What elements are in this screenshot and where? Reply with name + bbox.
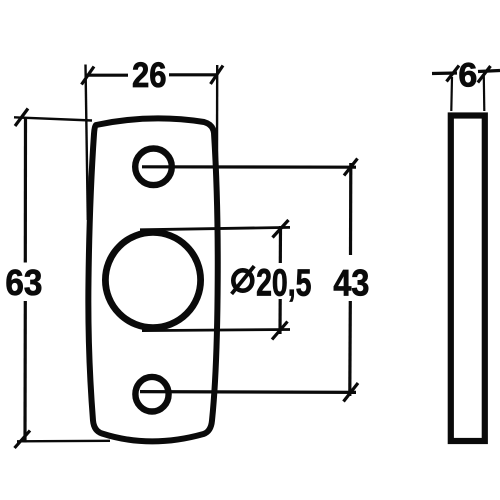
- dimension 63 bottom tick: [15, 431, 31, 449]
- dimension 6 right extension line: [483, 76, 486, 111]
- center hole Ø20,5: [105, 232, 200, 327]
- dimension 43 line lower segment: [348, 301, 352, 396]
- dimension Ø20,5 text: [232, 263, 312, 305]
- side view plate rectangle: [451, 116, 485, 442]
- tangent line bottom of center hole: [142, 330, 290, 331]
- dimension 43 bottom tick: [344, 383, 359, 402]
- top hole centerline: [142, 165, 356, 169]
- dimension Ø20,5 line lower segment: [278, 299, 281, 334]
- dimension 63 line lower segment: [23, 301, 26, 443]
- dimension 6 line left segment: [432, 71, 457, 75]
- svg-text:20,5: 20,5: [256, 263, 311, 305]
- dimension 26 line right segment: [169, 73, 217, 76]
- dimension 26 left extension line: [86, 65, 88, 221]
- bottom hole: [135, 377, 168, 412]
- dimension Ø20,5 bottom tick: [272, 322, 288, 340]
- dimension 6 left tick: [447, 66, 460, 82]
- dimension 6 line right segment: [478, 71, 500, 72]
- dimension 43 top tick: [344, 159, 358, 176]
- dimension 26 right tick: [211, 66, 224, 85]
- dimension 63 line upper segment: [24, 118, 27, 263]
- dimension 63 bottom extension line: [17, 440, 110, 443]
- dimension 63 top tick: [15, 109, 28, 127]
- top hole: [135, 149, 172, 186]
- dimension 26 left tick: [82, 67, 95, 85]
- svg-text:43: 43: [333, 262, 369, 304]
- dimension Ø20,5 line upper segment: [279, 226, 282, 263]
- dimension 6 right tick: [478, 66, 491, 83]
- svg-text:26: 26: [132, 55, 167, 95]
- dimension 43 line upper segment: [349, 163, 352, 255]
- dimension 26 right extension line: [215, 65, 218, 340]
- svg-text:63: 63: [5, 262, 42, 303]
- front view plate outline: [88, 118, 217, 441]
- dimension 63 top extension line: [14, 117, 92, 120]
- tangent line top of center hole: [140, 227, 290, 229]
- bottom hole centerline: [140, 390, 356, 394]
- svg-text:6: 6: [458, 57, 477, 95]
- dimension Ø20,5 top tick: [273, 220, 289, 238]
- dimension 6 left extension line: [450, 77, 453, 111]
- dimension 26 line left segment: [86, 74, 128, 77]
